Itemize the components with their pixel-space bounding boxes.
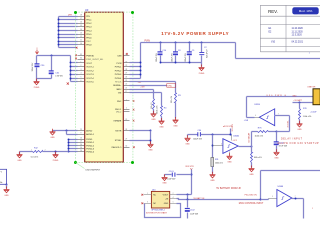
green box corner dot bottom-left (74, 161, 77, 164)
svg-text:10.0k ±1%: 10.0k ±1% (255, 136, 264, 138)
svg-text:2: 2 (126, 107, 127, 109)
power ground PGND for input caps (201, 63, 203, 67)
svg-text:4: 4 (173, 197, 174, 199)
svg-text:PGND-4: PGND-4 (86, 152, 95, 154)
svg-text:GND: GND (162, 183, 167, 185)
svg-text:PGND-2: PGND-2 (86, 145, 95, 147)
svg-text:5V2: 5V2 (138, 82, 141, 84)
svg-text:PIN-4: PIN-4 (86, 30, 92, 32)
svg-text:GND: GND (159, 126, 164, 128)
wire: U31B input with feedback (275, 115, 290, 117)
svg-text:1: 1 (312, 208, 313, 210)
capacitor C101 (191, 174, 193, 176)
svg-text:30: 30 (125, 61, 127, 63)
IC U3 left pins group VOUT (78, 55, 85, 57)
svg-text:PWRGD: PWRGD (86, 55, 94, 57)
svg-text:GND: GND (292, 95, 297, 97)
svg-text:5: 5 (81, 76, 82, 78)
svg-text:17: 17 (80, 18, 82, 20)
svg-text:U3: U3 (85, 8, 89, 12)
svg-text:35: 35 (80, 54, 82, 56)
svg-text:VOUT-1: VOUT-1 (86, 67, 94, 69)
svg-text:PIN-3: PIN-3 (86, 27, 92, 29)
svg-text:2: 2 (81, 65, 82, 67)
connector J30 (151, 191, 169, 208)
svg-text:VIN: VIN (118, 93, 122, 95)
svg-text:PIN-1: PIN-1 (86, 20, 92, 22)
svg-text:GND: GND (249, 174, 254, 176)
wire: C90 to comparator input node (201, 134, 232, 136)
svg-text:GND: GND (227, 162, 232, 164)
output port arrow (red, top-left) (35, 50, 38, 54)
svg-text:P30-G30 ON: P30-G30 ON (245, 194, 258, 196)
wire: bottom of input caps (161, 62, 202, 64)
svg-text:VOUT-2: VOUT-2 (86, 70, 94, 72)
svg-text:DNC: DNC (117, 101, 122, 103)
ground GND of U30A power pin (229, 152, 231, 155)
ground GND under R4 (159, 118, 165, 124)
svg-text:26: 26 (80, 150, 82, 152)
svg-text:SS/TR: SS/TR (115, 131, 122, 133)
svg-text:4.7uF 50V: 4.7uF 50V (279, 146, 288, 148)
wire: U31B output to PWRGD rail (255, 117, 260, 119)
svg-text:GND: GND (173, 125, 178, 127)
op-amp U31B (points left) (259, 109, 274, 126)
ground GND under R70 (297, 121, 303, 127)
svg-text:ILIM: ILIM (117, 55, 121, 57)
green box corner dot top-left (74, 11, 77, 14)
svg-text:29: 29 (125, 139, 127, 141)
wire: R76 feed from output node (252, 131, 258, 133)
svg-text:MCU CONTROL INPUT: MCU CONTROL INPUT (239, 203, 264, 205)
svg-text:SYNC_OU/DCP_SEL: SYNC_OU/DCP_SEL (86, 59, 103, 61)
ground GND left of C101 (164, 175, 166, 177)
IC U3 left pins group PIN (78, 16, 85, 18)
capacitor C2 (201, 42, 203, 44)
svg-text:Bv: Bv (0, 182, 2, 184)
svg-text:19: 19 (80, 141, 82, 143)
svg-text:INH/UVLO: INH/UVLO (112, 147, 122, 149)
svg-text:PGND: PGND (34, 87, 40, 89)
svg-text:PIN-6: PIN-6 (86, 37, 92, 39)
svg-text:PVIN-1: PVIN-1 (115, 67, 122, 69)
svg-text:3V3 SYS: 3V3 SYS (232, 123, 234, 131)
wire: PVIN bus down to PVIN pins (140, 43, 142, 79)
ground GND under R31 (210, 172, 216, 178)
svg-text:100uF 25V: 100uF 25V (193, 138, 203, 140)
svg-text:PVIN-2: PVIN-2 (115, 70, 122, 72)
resistor R4 (161, 106, 163, 117)
resistor R76 (258, 131, 269, 133)
svg-text:REV.: REV. (268, 9, 278, 14)
svg-text:ONE SH: ONE SH (307, 86, 315, 88)
U30A VCC stub (231, 135, 233, 141)
svg-text:AGND-1: AGND-1 (86, 133, 95, 136)
svg-text:28: 28 (125, 69, 127, 71)
svg-text:GND: GND (17, 160, 22, 162)
svg-text:5V BATTERY FROM J8: 5V BATTERY FROM J8 (216, 187, 241, 190)
svg-text:PVIN-4: PVIN-4 (115, 78, 122, 80)
capacitor C31 (51, 56, 53, 71)
svg-text:2: 2 (173, 193, 174, 195)
wire: input rail jog to sheet edge (235, 43, 237, 59)
svg-text:VOUT: VOUT (86, 63, 92, 65)
svg-text:100uF 25V: 100uF 25V (185, 52, 187, 62)
svg-text:GND: GND (210, 180, 215, 182)
svg-text:13: 13 (80, 32, 82, 34)
capacitor C30 (36, 56, 38, 64)
svg-text:+VCC: +VCC (233, 140, 238, 142)
svg-text:30: 30 (125, 146, 127, 148)
svg-text:11.10.2020: 11.10.2020 (292, 28, 304, 30)
wire: +5V battery feed to connector (293, 102, 313, 104)
svg-text:5: 5 (173, 202, 174, 204)
svg-text:17V-5.2V POWER SUPPLY: 17V-5.2V POWER SUPPLY (161, 31, 229, 36)
svg-text:3V3 STR: 3V3 STR (185, 166, 194, 168)
IC U3 right pins DNC group (124, 100, 130, 102)
net flag 3V3 STR upper (230, 129, 232, 135)
svg-text:28: 28 (125, 129, 127, 131)
svg-text:V10: V10 (271, 42, 276, 44)
svg-text:SENSE+: SENSE+ (113, 85, 122, 87)
op-amp U30B (277, 190, 292, 207)
ERC markers on PWRGD and SYNC pins (75, 54, 77, 56)
wire from J1 to ground (6, 184, 8, 186)
svg-text:PIN: PIN (86, 16, 90, 18)
svg-text:12: 12 (80, 36, 82, 38)
svg-text:9: 9 (81, 133, 82, 135)
svg-text:STSEL: STSEL (115, 140, 122, 142)
wire: PVIN rail (141, 42, 236, 44)
wire: J30 VOUT pin join (177, 194, 192, 196)
svg-text:1.00k ±1%: 1.00k ±1% (303, 116, 312, 118)
IC U3 body (85, 12, 124, 162)
resistor R31 below input node (211, 158, 214, 167)
wire: 3V3 STR vertical to connector (191, 170, 193, 195)
svg-text:100k ±1%: 100k ±1% (215, 163, 223, 165)
svg-text:VOUT: VOUT (163, 195, 169, 197)
capacitor C9 (189, 42, 191, 44)
svg-text:GND: GND (151, 119, 156, 121)
svg-text:15: 15 (80, 25, 82, 27)
J30 left pin NC 1 (144, 194, 152, 196)
wire: bottom of output caps (37, 78, 52, 80)
svg-text:U31B: U31B (254, 104, 260, 106)
wire: PIN bus tail (59, 47, 77, 49)
wire: RT/CLK to R3 (130, 81, 176, 83)
power ground PGND right of R12 (55, 151, 57, 153)
junction node on VOUT rail (51, 55, 53, 57)
svg-text:GND: GND (297, 129, 302, 131)
svg-text:GPT30123SR-1: GPT30123SR-1 (151, 210, 164, 212)
svg-text:U30B: U30B (278, 186, 284, 188)
svg-text:100uF 35V: 100uF 35V (32, 62, 34, 72)
svg-text:17: 17 (125, 91, 127, 93)
svg-text:10.0k ±1%: 10.0k ±1% (157, 105, 159, 114)
svg-text:301 ±1%: 301 ±1% (171, 96, 173, 103)
ground GND under J1 (4, 187, 10, 193)
svg-text:VOUT-5: VOUT-5 (86, 82, 94, 84)
svg-text:4.7uF 50V: 4.7uF 50V (205, 50, 207, 59)
svg-text:DNC-1: DNC-1 (115, 109, 122, 111)
ground GND left of R12 (19, 152, 21, 155)
IC U3 left pins PGND (78, 139, 85, 141)
battery input box J1 at left edge (0, 169, 7, 184)
svg-text:RT/CLK: RT/CLK (115, 82, 122, 84)
capacitor C90 series (197, 132, 198, 136)
J30 right pin GND (170, 203, 177, 205)
wire: SS/TR STSEL tie (130, 130, 151, 132)
resistor R3 (175, 93, 177, 103)
svg-text:+5V BATT: +5V BATT (293, 99, 302, 102)
table header badge (292, 7, 318, 14)
svg-text:2: 2 (45, 150, 46, 152)
power ground PGND under C30 (36, 79, 38, 82)
wire: VADJ to R33 (130, 89, 154, 91)
svg-text:R31: R31 (215, 159, 218, 161)
capacitor C8 (175, 42, 177, 44)
svg-text:VOUT-3: VOUT-3 (86, 74, 94, 76)
svg-text:ISHARE: ISHARE (114, 119, 122, 122)
wire: PIN pin bus (58, 17, 60, 48)
ground GND under R77 (249, 166, 255, 172)
svg-text:29: 29 (125, 65, 127, 67)
svg-text:+5VR: +5VR (244, 120, 249, 122)
wire: 5V BATT IN rail (177, 199, 261, 200)
svg-text:GND: GND (185, 144, 190, 146)
part number callout (76, 163, 85, 169)
svg-text:PGND: PGND (53, 160, 59, 162)
revision table (260, 5, 320, 52)
svg-text:PIN-5: PIN-5 (86, 34, 92, 36)
capacitor C100 on feedback node (276, 132, 278, 142)
svg-text:25: 25 (125, 80, 127, 82)
svg-text:◂PH: ◂PH (68, 13, 72, 16)
svg-text:18: 18 (80, 15, 82, 17)
resistor R77 pulldown on output node (251, 147, 253, 153)
svg-text:PIN-7: PIN-7 (86, 41, 91, 43)
svg-text:4.7uF 25V: 4.7uF 25V (55, 75, 63, 77)
svg-text:GND: GND (4, 195, 9, 197)
resistor R12 0.0 ohm (20, 151, 33, 153)
svg-text:PGND: PGND (86, 139, 92, 141)
svg-text:3V3 DEL: 3V3 DEL (288, 120, 290, 127)
ground GND left end of C90 wire (187, 135, 189, 137)
green assembly box around U3 (76, 12, 133, 162)
svg-text:DNC: DNC (168, 86, 173, 88)
svg-text:1.0uF 50V: 1.0uF 50V (167, 179, 176, 181)
J30 left pin NC 2 (144, 203, 152, 205)
svg-text:PGND: PGND (199, 73, 205, 75)
svg-text:24: 24 (80, 147, 82, 149)
svg-text:23: 23 (80, 129, 82, 131)
wire: PGND pin bus (68, 140, 70, 152)
svg-text:11.11.2020: 11.11.2020 (292, 31, 304, 33)
svg-text:100uF 25V: 100uF 25V (156, 52, 158, 62)
IC U3 right pins group PVIN (124, 55, 130, 57)
capacitor C10 (160, 42, 162, 44)
ground GND under C100 (274, 149, 280, 155)
wire: VOUT rail from output caps to VOUT pin bus (37, 55, 71, 57)
svg-text:10: 10 (80, 43, 82, 45)
wire: VIN to R4 (130, 92, 162, 94)
wire: input node of U30A (212, 135, 214, 158)
svg-text:26: 26 (125, 76, 127, 78)
svg-text:10.0 ±1%: 10.0 ±1% (151, 102, 153, 109)
svg-text:GND: GND (274, 158, 279, 160)
wire: U30A output node (239, 146, 252, 148)
svg-text:1.0uF 50V: 1.0uF 50V (190, 214, 199, 216)
svg-text:U30 PWR G: U30 PWR G (267, 95, 287, 97)
svg-text:0.0 ±1%: 0.0 ±1% (31, 157, 39, 159)
J30 right pin VOUT (170, 194, 177, 196)
svg-text:PVIN-3: PVIN-3 (115, 74, 122, 76)
svg-text:GND: GND (164, 203, 169, 205)
svg-text:34: 34 (80, 58, 82, 60)
svg-text:16: 16 (80, 22, 82, 24)
wire: rail up to sheet edge right (260, 171, 262, 200)
resistor R70 (299, 103, 301, 109)
svg-text:11: 11 (80, 40, 82, 42)
svg-text:DELAY INPUT: DELAY INPUT (281, 137, 303, 140)
svg-text:DNC-2: DNC-2 (116, 112, 121, 114)
wire: R76 to feedback node (269, 131, 277, 133)
svg-text:22: 22 (125, 84, 127, 86)
wire: SENSE+ to DNC flag (130, 85, 167, 87)
ground GND for AGND pins (53, 130, 78, 132)
J30 right pin +IN (170, 198, 177, 200)
svg-text:100k ±1%: 100k ±1% (254, 157, 262, 159)
svg-text:PVIN: PVIN (117, 63, 122, 65)
capacitor C102 (187, 200, 189, 208)
svg-text:100uF 25V: 100uF 25V (171, 52, 173, 62)
svg-text:20: 20 (80, 144, 82, 146)
svg-text:1: 1 (81, 61, 82, 63)
wire: U30B output (292, 198, 304, 200)
svg-text:27: 27 (125, 73, 127, 75)
svg-text:GND: GND (148, 150, 153, 152)
svg-text:PGND-3: PGND-3 (86, 149, 95, 151)
no-connect flag DNC (167, 84, 176, 88)
svg-text:AGND: AGND (86, 129, 92, 132)
wire: VOUT bus vertical to VOUT pins (70, 56, 72, 82)
svg-text:3: 3 (81, 69, 82, 71)
svg-text:1: 1 (309, 53, 310, 55)
ground GND under R3 (173, 117, 179, 123)
ERC marker on ILIM pin (126, 53, 128, 55)
wire: U30B input from rail (261, 199, 269, 201)
svg-text:VADJ: VADJ (116, 88, 121, 91)
svg-text:25: 25 (125, 119, 127, 121)
svg-text:U30A: U30A (233, 135, 239, 138)
svg-text:4: 4 (81, 73, 82, 75)
green box corner dot top-right (131, 11, 134, 14)
IC U3 left pins AGND (78, 130, 85, 132)
ground GND under R33 (151, 111, 157, 117)
svg-text:7: 7 (295, 196, 296, 198)
svg-text:04.22.2021: 04.22.2021 (292, 42, 304, 44)
svg-text:GND: GND (50, 137, 55, 139)
svg-text:VOUT-4: VOUT-4 (86, 78, 94, 80)
svg-text:ALLOW FOR U30 STARTUP: ALLOW FOR U30 STARTUP (278, 142, 319, 145)
resistor R33 (153, 99, 155, 110)
wire: C90 left segment (188, 134, 198, 136)
svg-text:10: 10 (80, 137, 82, 139)
wire: J30 GND pin wrap (145, 204, 181, 218)
op-amp U30A (223, 139, 238, 154)
svg-text:1: 1 (126, 99, 127, 101)
svg-text:LM21734PWVT: LM21734PWVT (86, 170, 101, 172)
ERC marker at VOUT bus bottom (67, 83, 69, 85)
svg-text:3V3 REG FOR START: 3V3 REG FOR START (146, 212, 168, 215)
svg-text:Mod. 10%: Mod. 10% (299, 9, 313, 13)
svg-text:21: 21 (125, 88, 127, 90)
svg-text:12.5.2020: 12.5.2020 (292, 35, 303, 37)
svg-text:14: 14 (80, 29, 82, 31)
green box corner dot bottom-right (131, 161, 134, 164)
svg-text:PGND-1: PGND-1 (86, 142, 95, 144)
svg-text:PIN-2: PIN-2 (86, 23, 92, 25)
ground GND under STSEL tie (148, 141, 154, 147)
svg-text:5V2 DELAY: 5V2 DELAY (248, 132, 251, 143)
svg-text:PIN-8: PIN-8 (86, 45, 92, 47)
svg-text:+100uF: +100uF (310, 111, 317, 113)
svg-text:+IN: +IN (165, 199, 169, 201)
connector J8 at right edge (313, 89, 320, 105)
svg-text:6: 6 (81, 80, 82, 82)
svg-text:5V BATT IN: 5V BATT IN (193, 197, 204, 200)
